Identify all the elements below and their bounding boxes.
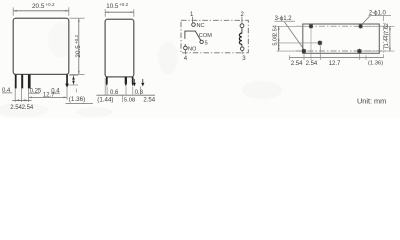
- schematic: pin 3 label: [242, 51, 246, 62]
- view 1: pin 2: [21, 74, 23, 88]
- schematic: NO contact stub: [184, 44, 186, 46]
- view 3: coil hole top-right: [358, 24, 363, 29]
- svg-text:2.54: 2.54: [272, 25, 278, 36]
- svg-text:10.5: 10.5: [106, 3, 119, 10]
- svg-text:12.7: 12.7: [329, 61, 341, 67]
- svg-text:5.08: 5.08: [124, 98, 135, 104]
- view 2: pin middle: [125, 77, 127, 87]
- svg-text:5: 5: [205, 40, 208, 46]
- view 3: contact hole bottom-right: [357, 49, 362, 54]
- svg-text:7.62: 7.62: [384, 23, 390, 34]
- view 3: contact hole middle: [317, 40, 322, 45]
- view 1: pin 4 right: [65, 74, 69, 88]
- view 2: arrow marks beside pins: [133, 79, 144, 86]
- view 1: front view body outline: [13, 18, 69, 74]
- schematic: pin 2 label: [241, 12, 245, 24]
- schematic: relay outline box (dash-dot): [181, 20, 248, 53]
- view 2: label 0.8 pin width: [135, 90, 144, 96]
- schematic: NC contact terminal pin 1: [192, 23, 205, 29]
- svg-text:20.5: 20.5: [75, 45, 82, 58]
- view 2: side view body outline: [105, 19, 134, 77]
- svg-text:(1.44): (1.44): [97, 97, 113, 104]
- svg-text:3: 3: [242, 56, 246, 62]
- view 2: top width dimension 10.5+0.2: [105, 2, 134, 17]
- view 1: pin 1: [15, 74, 17, 88]
- svg-text:2: 2: [241, 12, 245, 18]
- schematic: coil terminal pin 3: [240, 47, 244, 51]
- view 3: coil hole top-left: [309, 24, 314, 29]
- view 1: label 0.4 right pin width: [51, 88, 60, 94]
- view 1: pin pitch dims 2.54 2.54: [10, 89, 34, 112]
- svg-text:+0.2: +0.2: [46, 2, 56, 7]
- svg-text:COM: COM: [199, 33, 212, 39]
- svg-text:2.54: 2.54: [291, 61, 303, 67]
- svg-text:(1.36): (1.36): [368, 61, 383, 67]
- view 3: left vertical dims 5.08 / 2.54: [272, 25, 317, 51]
- view 3: label 3-phi1.2 with leader: [274, 16, 303, 48]
- svg-text:Unit: mm: Unit: mm: [357, 97, 386, 106]
- view 2: pin right: [132, 77, 134, 87]
- view 3: centerline through coil holes: [296, 25, 386, 27]
- view 3: centerline through contact holes: [296, 50, 386, 52]
- svg-text:+0.2: +0.2: [119, 2, 129, 7]
- schematic: COM terminal pin 5: [199, 33, 212, 46]
- view 3: right vertical dims 7.62 / (1.44): [362, 16, 395, 58]
- view 3: contact hole bottom-left: [301, 49, 306, 54]
- view 2: bottom dimension row (1.44) 5.08 2.54: [96, 78, 155, 104]
- svg-text:20.5: 20.5: [32, 3, 45, 10]
- view 1: dimension 12.7 pin span: [29, 88, 67, 100]
- svg-text:(1.44): (1.44): [384, 33, 390, 48]
- units note: [357, 97, 386, 106]
- view 1: pin 3: [28, 74, 31, 88]
- view 2: pin left: [106, 77, 108, 87]
- view 1: label 0.4 left pin width: [2, 88, 13, 94]
- view 1: label 0.25 middle pin width: [29, 88, 42, 94]
- schematic: armature (movable contact): [185, 31, 201, 40]
- view 3: bottom dimension row 2.54 2.54 12.7 (1.36): [290, 29, 384, 67]
- svg-text:2.54: 2.54: [306, 61, 318, 67]
- svg-text:5.08: 5.08: [272, 35, 278, 46]
- view 3: label 2-phi1.0 with leader: [362, 10, 391, 24]
- schematic: pin 4 label: [184, 50, 188, 62]
- schematic: NO contact terminal pin 4: [184, 46, 197, 52]
- view 2: label 0.6 pin width: [110, 90, 119, 96]
- svg-text:NO: NO: [188, 46, 197, 52]
- svg-text:NC: NC: [197, 23, 205, 29]
- svg-text:(1.36): (1.36): [69, 96, 85, 103]
- svg-text:2.54: 2.54: [143, 98, 155, 104]
- view 1: top width dimension 20.5+0.2: [13, 2, 69, 16]
- schematic: coil terminal pin 2: [240, 24, 244, 28]
- svg-text:4: 4: [184, 56, 188, 62]
- schematic: coil L1: [239, 28, 241, 47]
- view 1: right height dimension 20.5+0.2: [70, 18, 85, 74]
- schematic: pin 1 label: [190, 12, 194, 22]
- svg-text:+0.2: +0.2: [74, 34, 79, 44]
- view 3: bottom view outline: [303, 24, 380, 53]
- view 1: stand-off height dim (1.36): [66, 75, 94, 103]
